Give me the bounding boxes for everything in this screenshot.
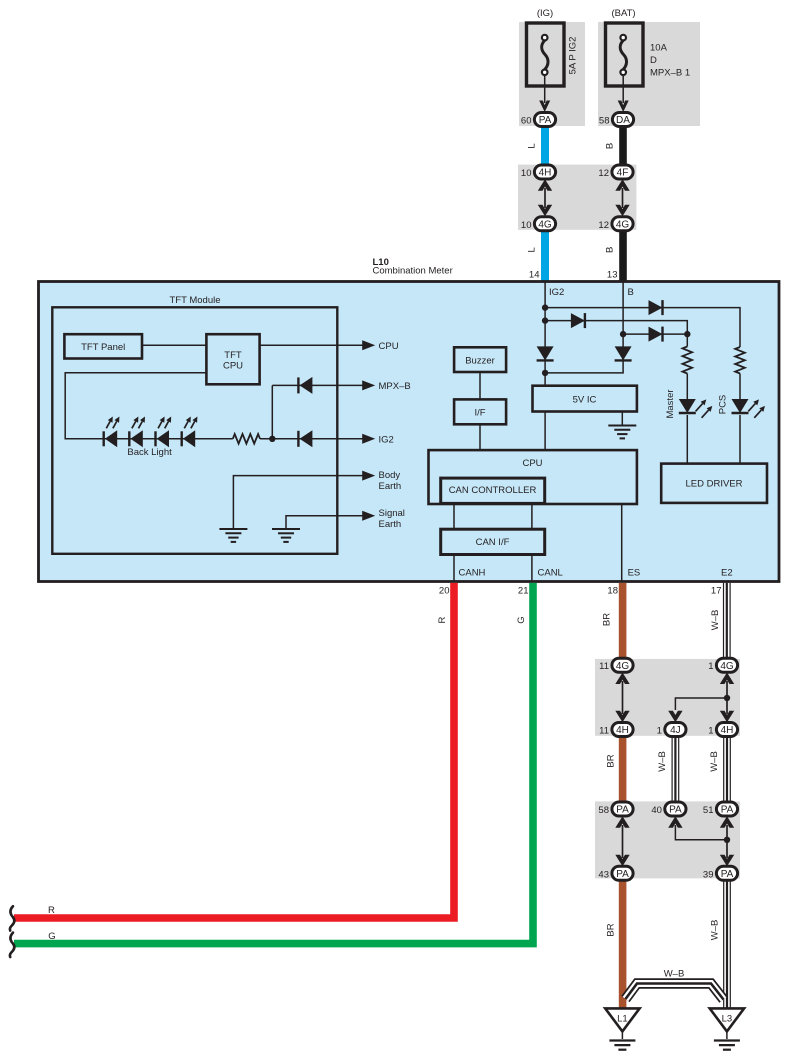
svg-text:W–B: W–B xyxy=(664,968,685,979)
svg-text:PCS: PCS xyxy=(717,395,728,415)
connector pin 10 4G xyxy=(521,217,556,231)
svg-text:BR: BR xyxy=(606,923,617,936)
svg-text:W–B: W–B xyxy=(710,920,721,941)
connector pin 39 PA xyxy=(703,866,738,880)
joint 4G split to 4J and 4H xyxy=(668,673,734,723)
svg-text:1: 1 xyxy=(708,661,713,672)
svg-text:W–B: W–B xyxy=(710,610,721,631)
connector pin 43 PA xyxy=(598,866,633,880)
connector pin 12 4G xyxy=(598,217,633,231)
svg-text:12: 12 xyxy=(598,220,609,231)
ground L3 xyxy=(710,1008,744,1049)
connector pin 12 4F xyxy=(598,165,633,179)
svg-text:TFT Panel: TFT Panel xyxy=(81,342,125,353)
svg-text:W–B: W–B xyxy=(709,751,720,772)
fuse 5A P IG2 xyxy=(527,23,579,86)
svg-text:4H: 4H xyxy=(539,168,552,179)
svg-text:D: D xyxy=(650,55,657,66)
svg-text:PA: PA xyxy=(721,869,734,880)
svg-text:17: 17 xyxy=(711,586,722,597)
joint PA left xyxy=(615,816,629,866)
LED PCS xyxy=(717,395,765,418)
TFT Panel box xyxy=(64,334,142,358)
signal earth wire xyxy=(286,508,405,530)
wire fuse BAT to pin 58 xyxy=(618,75,629,112)
svg-text:Signal: Signal xyxy=(379,508,405,519)
node IG2 above 5V IC xyxy=(542,370,548,376)
label L10 Combination Meter xyxy=(373,257,453,277)
wire 5V IC to CPU xyxy=(544,412,546,451)
svg-text:(IG): (IG) xyxy=(537,8,553,19)
node line1 on IG2 xyxy=(542,304,548,310)
svg-text:DA: DA xyxy=(616,115,630,126)
svg-text:R: R xyxy=(48,905,55,916)
backlight LED D3 xyxy=(156,417,172,448)
svg-text:51: 51 xyxy=(703,805,714,816)
svg-text:40: 40 xyxy=(651,805,662,816)
svg-text:Buzzer: Buzzer xyxy=(465,356,495,367)
node line2 on IG2 xyxy=(542,317,548,323)
ground L1 xyxy=(605,1008,639,1049)
svg-text:4G: 4G xyxy=(616,661,630,672)
svg-text:18: 18 xyxy=(607,586,618,597)
svg-text:IG2: IG2 xyxy=(379,434,394,445)
wire Master LED to LED driver xyxy=(686,415,688,464)
svg-text:E2: E2 xyxy=(721,568,733,579)
svg-text:10: 10 xyxy=(521,168,532,179)
svg-text:5A P IG2: 5A P IG2 xyxy=(568,37,579,75)
LED DRIVER box xyxy=(661,464,767,503)
svg-text:LED DRIVER: LED DRIVER xyxy=(685,478,742,489)
connector pin 1 4H right xyxy=(708,723,737,737)
ground signal earth xyxy=(272,529,300,542)
svg-text:CANH: CANH xyxy=(459,568,486,579)
svg-text:Back Light: Back Light xyxy=(127,447,172,458)
svg-text:1: 1 xyxy=(657,726,662,737)
svg-text:4G: 4G xyxy=(616,219,630,230)
diode network line 3 (B to Master) xyxy=(623,327,687,342)
ground body earth xyxy=(219,529,247,542)
TFT module box xyxy=(52,295,337,554)
CPU box xyxy=(429,450,637,504)
svg-text:4J: 4J xyxy=(670,725,681,736)
svg-text:4H: 4H xyxy=(721,725,734,736)
svg-text:TFT: TFT xyxy=(224,350,242,361)
svg-text:TFT Module: TFT Module xyxy=(169,295,220,306)
svg-text:ES: ES xyxy=(628,568,641,579)
wire node to MPX-B line xyxy=(271,385,273,438)
svg-text:PA: PA xyxy=(616,869,629,880)
svg-text:21: 21 xyxy=(518,586,529,597)
wire W-B link to L1 xyxy=(626,968,724,999)
svg-text:13: 13 xyxy=(607,270,618,281)
backlight LED D1 xyxy=(104,417,120,448)
svg-text:60: 60 xyxy=(521,116,532,127)
wire L upper (IG feed) xyxy=(527,123,550,169)
svg-text:L: L xyxy=(527,247,538,252)
svg-text:R: R xyxy=(437,616,448,623)
wires CAN I/F to pins xyxy=(454,555,532,582)
connector pin 40 PA xyxy=(651,802,686,816)
connector pin 58 PA xyxy=(598,802,633,816)
resistor Master xyxy=(683,334,693,399)
wire TFT Panel to TFT CPU xyxy=(142,344,206,346)
svg-text:MPX–B 1: MPX–B 1 xyxy=(650,68,690,79)
backlight LED D4 xyxy=(182,417,198,448)
svg-text:CPU: CPU xyxy=(522,458,542,469)
connector pin 10 4H xyxy=(521,165,556,179)
svg-text:11: 11 xyxy=(599,661,609,672)
connector pin 11 4H xyxy=(599,723,633,737)
wire R CANH xyxy=(14,583,458,922)
break symbol G wire xyxy=(10,933,14,957)
svg-text:58: 58 xyxy=(598,805,609,816)
fuse 10A D MPX-B 1 xyxy=(606,23,691,86)
ground 5V IC xyxy=(608,426,636,439)
wire resistor to IG2 output xyxy=(260,434,394,446)
wire I/F to CPU xyxy=(479,424,481,450)
wire 5V IC to ground xyxy=(621,412,623,426)
node line3 on B xyxy=(620,331,626,337)
svg-text:G: G xyxy=(516,616,527,623)
svg-text:39: 39 xyxy=(703,869,714,880)
wire PCS LED to LED driver xyxy=(739,415,741,464)
resistor backlight xyxy=(233,434,260,444)
svg-text:Earth: Earth xyxy=(379,481,402,492)
diode down on B line xyxy=(615,346,632,360)
wire MPX-B output xyxy=(272,380,410,392)
joint 40PA to node xyxy=(668,816,727,840)
svg-text:B: B xyxy=(605,247,616,253)
combination meter box L10 xyxy=(39,282,780,582)
wire W-B from 4J xyxy=(657,737,679,806)
CAN CONTROLLER box xyxy=(441,478,545,503)
diode on IG2 line xyxy=(298,430,312,447)
svg-text:1: 1 xyxy=(708,726,713,737)
wire fuse IG to pin 60 xyxy=(539,75,550,112)
wire buzzer to I/F xyxy=(479,372,481,399)
svg-text:MPX–B: MPX–B xyxy=(379,381,411,392)
joint 4F to 4G right xyxy=(615,179,629,216)
joint 4G-4H left xyxy=(615,673,629,723)
connector pin 1 4J xyxy=(657,723,686,737)
svg-text:14: 14 xyxy=(529,270,540,281)
svg-text:Earth: Earth xyxy=(379,519,402,530)
wire B vertical and to node xyxy=(545,282,623,373)
svg-text:Body: Body xyxy=(379,470,401,481)
Buzzer box xyxy=(454,347,506,372)
svg-text:IG2: IG2 xyxy=(549,287,564,298)
wire BR mid xyxy=(606,733,627,805)
svg-text:BR: BR xyxy=(602,613,613,626)
svg-text:L1: L1 xyxy=(617,1014,628,1025)
wire B upper (BAT feed) xyxy=(605,123,627,169)
I/F box xyxy=(454,399,506,424)
wire BR lower xyxy=(606,877,627,1009)
fuse block BAT background xyxy=(598,22,700,126)
wires CAN CONTROLLER to CAN I/F xyxy=(454,503,532,529)
node line3 master xyxy=(684,331,690,337)
CAN I/F box xyxy=(441,529,545,554)
svg-text:4G: 4G xyxy=(720,661,734,672)
svg-text:20: 20 xyxy=(439,586,450,597)
wire L lower xyxy=(527,227,550,282)
node backlight junction xyxy=(269,436,275,442)
wire G CANL xyxy=(14,583,537,948)
joint 51PA to 39PA xyxy=(720,816,734,866)
svg-text:L3: L3 xyxy=(722,1014,733,1025)
wire BR upper (ES) xyxy=(602,583,627,663)
svg-text:Master: Master xyxy=(665,389,676,418)
fuse block IG background xyxy=(519,22,585,126)
joint 4H to 4G left xyxy=(538,179,552,216)
svg-text:4F: 4F xyxy=(617,168,629,179)
svg-text:10A: 10A xyxy=(650,43,668,54)
svg-text:4G: 4G xyxy=(538,219,552,230)
junction block 4G-4H floor background xyxy=(595,659,740,736)
svg-text:L: L xyxy=(527,143,538,148)
svg-text:(BAT): (BAT) xyxy=(611,8,635,19)
wire W-B from 4H xyxy=(709,737,730,806)
break symbol R wire xyxy=(10,906,14,930)
svg-text:CANL: CANL xyxy=(538,568,563,579)
svg-text:Combination Meter: Combination Meter xyxy=(373,266,453,277)
svg-text:58: 58 xyxy=(599,116,610,127)
svg-text:B: B xyxy=(605,143,616,149)
wire B lower xyxy=(605,227,627,282)
5V IC box xyxy=(533,386,637,412)
svg-text:12: 12 xyxy=(598,168,609,179)
wire W-B upper (E2) xyxy=(710,583,730,661)
svg-text:PA: PA xyxy=(669,805,682,816)
resistor PCS xyxy=(735,347,745,399)
svg-text:5V IC: 5V IC xyxy=(573,394,597,405)
LED Master xyxy=(665,389,713,418)
diode down on IG2 line xyxy=(537,346,554,360)
svg-text:10: 10 xyxy=(521,220,532,231)
diode network line 2 (IG2 to Master) xyxy=(545,313,687,334)
wire IG2 vertical into 5V IC xyxy=(544,282,546,387)
diode network line 1 (IG2 to PCS) xyxy=(545,300,740,347)
svg-text:B: B xyxy=(628,287,634,298)
svg-text:43: 43 xyxy=(598,869,609,880)
junction block 4H/4F-4G background xyxy=(518,165,636,230)
svg-text:11: 11 xyxy=(599,726,609,737)
wire TFT CPU to CPU output xyxy=(260,340,399,352)
svg-text:CAN I/F: CAN I/F xyxy=(476,537,510,548)
svg-text:PA: PA xyxy=(539,115,552,126)
svg-text:PA: PA xyxy=(721,805,734,816)
body earth wire xyxy=(233,470,401,528)
wire TFT CPU to backlight chain xyxy=(65,373,233,439)
junction block PA background xyxy=(595,801,740,878)
connector pin 51 PA xyxy=(703,802,738,816)
svg-text:CPU: CPU xyxy=(223,361,243,372)
svg-text:4H: 4H xyxy=(616,725,629,736)
svg-text:W–B: W–B xyxy=(657,751,668,772)
wire ES from CPU xyxy=(621,503,623,581)
connector pin 1 4G right xyxy=(708,658,737,672)
svg-text:BR: BR xyxy=(606,754,617,767)
svg-text:G: G xyxy=(48,931,55,942)
svg-text:I/F: I/F xyxy=(474,408,485,419)
connector pin 60 PA xyxy=(521,113,556,127)
TFT CPU box xyxy=(206,334,259,384)
diode on MPX-B line xyxy=(298,377,312,394)
svg-text:PA: PA xyxy=(616,805,629,816)
wire W-B lower xyxy=(710,880,731,1008)
connector pin 11 4G xyxy=(599,658,633,672)
svg-text:CAN CONTROLLER: CAN CONTROLLER xyxy=(449,485,537,496)
backlight LED D2 xyxy=(129,417,145,448)
svg-text:CPU: CPU xyxy=(379,341,399,352)
connector pin 58 DA xyxy=(599,113,634,127)
